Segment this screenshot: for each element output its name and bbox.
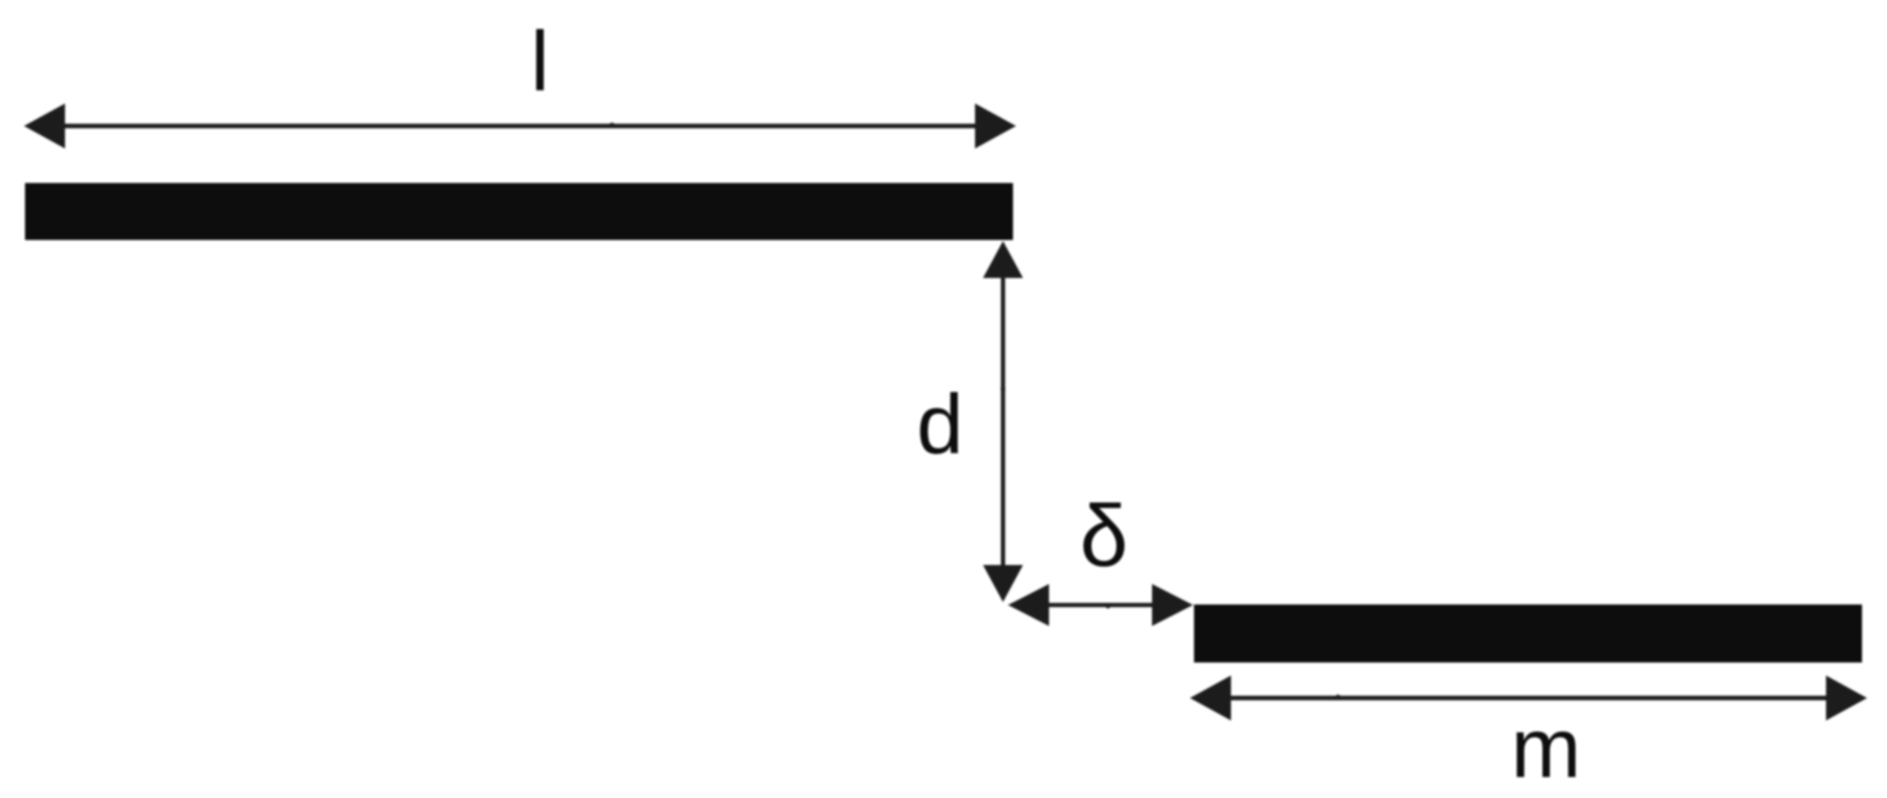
svg-text:δ: δ — [1080, 488, 1128, 585]
svg-text:l: l — [531, 14, 550, 108]
dimension arrow d (vertical double-headed) — [983, 241, 1023, 602]
svg-text:m: m — [1511, 701, 1581, 795]
bottom beam (length m) — [1194, 605, 1862, 663]
dimension arrow delta (horizontal double-headed) — [1008, 584, 1193, 626]
dimension arrow l (horizontal double-headed) — [24, 104, 1016, 149]
dimension arrow m (horizontal double-headed) — [1190, 676, 1867, 721]
svg-text:d: d — [917, 377, 964, 471]
top beam (length l) — [25, 183, 1013, 240]
